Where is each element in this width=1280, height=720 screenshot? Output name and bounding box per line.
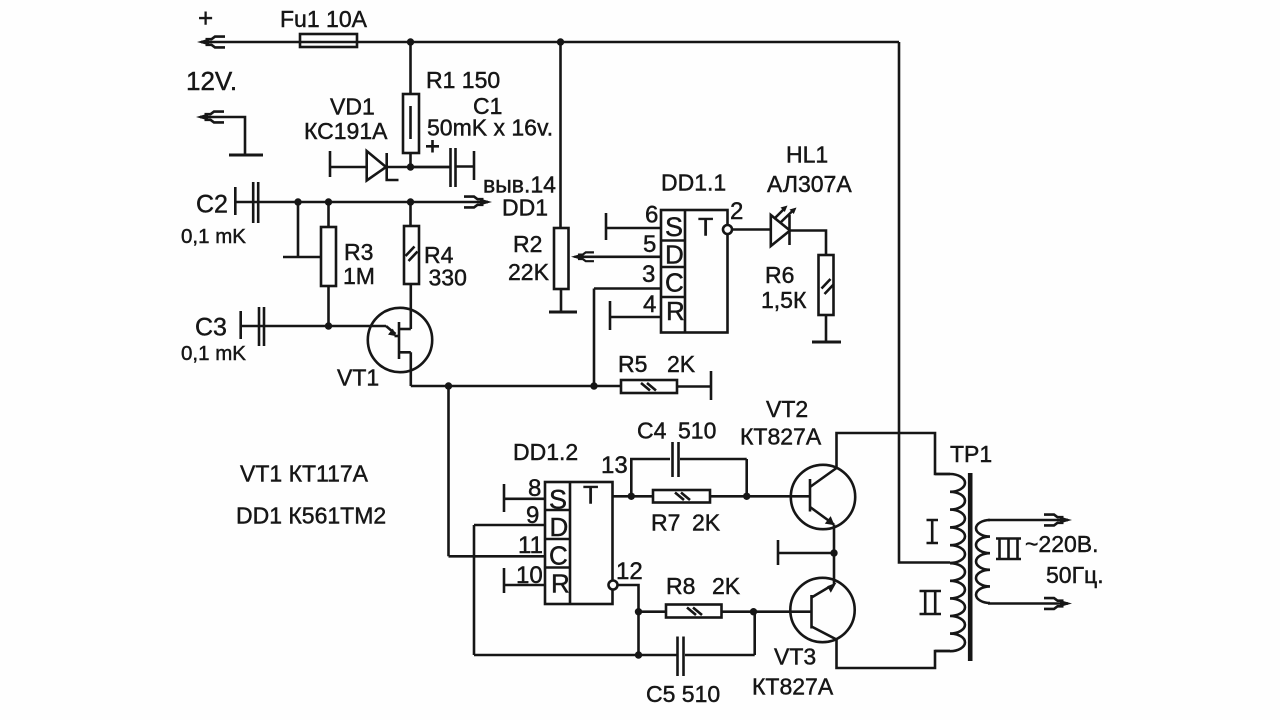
- svg-text:R: R: [666, 296, 685, 326]
- pin 3 C input wire: [594, 287, 661, 290]
- svg-text:R3: R3: [344, 239, 373, 265]
- pin 9 D input wire: [474, 524, 545, 527]
- pin 4 R input wire: [610, 316, 661, 319]
- node R7/C4 junction: [743, 493, 750, 500]
- VT3 collector lead: [812, 627, 951, 669]
- node pin12 / C5 rail: [635, 651, 642, 658]
- wire R4 top lead: [409, 202, 412, 226]
- capacitor C3 plates: [258, 307, 261, 346]
- svg-text:S: S: [549, 485, 567, 515]
- TP1 winding III secondary: [976, 520, 990, 603]
- svg-text:T: T: [583, 482, 598, 510]
- svg-text:6: 6: [645, 202, 658, 229]
- wire y202 bus: [235, 201, 480, 204]
- wire VD1 anode: [330, 166, 366, 169]
- terminal tick C3 left: [239, 311, 242, 339]
- wire secondary bottom lead: [988, 602, 1062, 605]
- svg-text:2K: 2K: [667, 351, 696, 377]
- node R3 top: [325, 198, 332, 205]
- svg-text:12: 12: [616, 558, 643, 585]
- svg-text:R8: R8: [666, 573, 695, 599]
- svg-text:0,1 mK: 0,1 mK: [181, 225, 246, 248]
- svg-text:12V.: 12V.: [186, 66, 237, 96]
- VT1 emitter with arrow: [386, 326, 396, 334]
- svg-text:50mK x 16v.: 50mK x 16v.: [427, 115, 553, 141]
- LED cathode bar: [788, 215, 791, 245]
- node C2 bus / R3 jog: [294, 198, 301, 205]
- resistor R3: [321, 227, 336, 286]
- svg-text:VT1: VT1: [337, 365, 379, 391]
- VT3 base bar: [810, 595, 813, 629]
- wire wiper to DD1.1 D pin: [578, 255, 661, 258]
- pin 11 C input wire: [449, 555, 546, 558]
- node VT2/VT3 emitters: [830, 549, 837, 556]
- svg-text:R2: R2: [513, 231, 542, 257]
- ground bar minus terminal: [229, 154, 263, 157]
- TP1 core bar: [968, 473, 973, 661]
- svg-text:4: 4: [643, 291, 656, 318]
- wire secondary top lead: [988, 519, 1062, 522]
- svg-text:C2: C2: [196, 191, 228, 219]
- diode VD1 triangle: [367, 151, 386, 181]
- wire R4 bottom lead into VT1: [409, 284, 412, 329]
- pin 8 S input wire: [504, 497, 545, 500]
- VT2 emitter with arrow: [810, 507, 834, 525]
- svg-text:D: D: [550, 512, 569, 542]
- wire R8 to VT3 base: [722, 610, 812, 613]
- node pin13 / C4: [628, 493, 635, 500]
- svg-text:АЛ307А: АЛ307А: [767, 171, 852, 197]
- VT2 circle: [791, 465, 855, 529]
- svg-text:22K: 22K: [508, 259, 550, 285]
- DD1.1 cell lines: [661, 241, 685, 298]
- resistor R2: [554, 228, 569, 289]
- svg-text:3: 3: [642, 261, 655, 288]
- wire R2 bottom lead: [560, 289, 563, 312]
- svg-text:R7: R7: [651, 510, 680, 536]
- wire R7 to VT2 base: [710, 495, 810, 498]
- svg-text:50Гц.: 50Гц.: [1046, 562, 1104, 588]
- svg-text:DD1.1: DD1.1: [661, 170, 726, 196]
- svg-text:+: +: [198, 3, 213, 33]
- pin 6 S input wire: [606, 227, 661, 230]
- resistor R7: [653, 490, 710, 503]
- connector arrow - input: [196, 112, 224, 123]
- terminal tick C2 left: [234, 187, 237, 215]
- DD1.2 cell lines: [545, 510, 570, 568]
- ground bar R6: [812, 341, 841, 344]
- VT2 base bar: [809, 479, 812, 512]
- svg-text:1,5К: 1,5К: [761, 287, 807, 313]
- TP1 winding II: [950, 563, 965, 651]
- svg-text:S: S: [665, 212, 683, 242]
- svg-text:Fu1 10A: Fu1 10A: [280, 6, 368, 32]
- LED emission arrows: [774, 208, 785, 219]
- svg-text:510: 510: [678, 418, 716, 444]
- wire minus lead: [204, 117, 245, 155]
- svg-text:2K: 2K: [692, 510, 721, 536]
- svg-text:10: 10: [516, 562, 543, 589]
- LED triangle: [771, 215, 790, 246]
- svg-text:DD1 К561ТМ2: DD1 К561ТМ2: [236, 503, 386, 529]
- svg-text:R5: R5: [618, 351, 647, 377]
- cathode bar VD1 with zener hook: [387, 153, 399, 180]
- wire winding I top lead: [935, 473, 950, 476]
- resistor R6: [819, 255, 834, 315]
- emitter stub wire: [778, 552, 834, 555]
- terminal tick emitter stub: [777, 540, 780, 565]
- VT2 emitter lead down: [833, 525, 836, 554]
- svg-text:8: 8: [528, 475, 541, 502]
- node VT3 base / C5: [750, 608, 757, 615]
- svg-text:R: R: [551, 569, 570, 599]
- svg-text:DD1.2: DD1.2: [513, 439, 578, 465]
- pin 2 output inverter circle: [723, 225, 732, 234]
- TP1 winding I: [950, 474, 965, 563]
- wire B1 bus: [411, 385, 621, 388]
- pin 10 R input wire: [504, 584, 545, 587]
- VT2 collector lead: [810, 433, 950, 487]
- svg-text:HL1: HL1: [786, 142, 828, 168]
- node B top rail / R2 drop: [557, 38, 564, 45]
- fuse Fu1: [300, 34, 357, 47]
- VT3 emitter lead joins VT2: [833, 553, 836, 584]
- svg-text:5: 5: [643, 231, 656, 258]
- wire C3 to VT1 emitter: [241, 325, 386, 328]
- terminal tick pin 8: [503, 484, 506, 512]
- wire VD1 cathode to node: [387, 166, 450, 169]
- terminal tick pin 10: [503, 568, 506, 593]
- svg-text:C3: C3: [195, 314, 227, 342]
- terminal tick pin 6: [605, 213, 608, 240]
- wire R1 top lead: [409, 42, 412, 94]
- ground bar R2: [549, 311, 577, 314]
- wire R3 jog: [283, 202, 321, 257]
- capacitor C5: [678, 637, 684, 677]
- VT1 B2 lead: [399, 328, 411, 331]
- VT1 base bar: [398, 322, 401, 359]
- wire R5 right lead: [677, 385, 711, 388]
- DD1.2 body: [545, 482, 613, 604]
- wire pin 2 to LED: [732, 228, 770, 231]
- svg-text:11: 11: [518, 532, 543, 559]
- connector arrow to DD1 pin 14: [464, 197, 492, 208]
- svg-text:D: D: [665, 240, 684, 270]
- winding label II: [920, 591, 942, 614]
- wire pin 12 down: [618, 585, 639, 655]
- connector arrow output top: [1044, 515, 1072, 526]
- node VD1/C1/R1: [407, 163, 414, 170]
- VT3 emitter with arrow (up): [812, 587, 831, 598]
- wire C5 right lead: [685, 612, 755, 655]
- svg-text:C: C: [665, 268, 684, 298]
- wire top rail +12V: [205, 41, 899, 44]
- connector arrow + input: [197, 37, 225, 48]
- svg-text:VT1 КТ117А: VT1 КТ117А: [240, 461, 369, 487]
- capacitor C1 plates: [449, 148, 452, 187]
- node A top rail / R1: [407, 38, 414, 45]
- svg-text:R6: R6: [765, 262, 794, 288]
- wire rise to DD1.1 C input: [593, 289, 596, 387]
- node to DD1.2 pin11: [445, 382, 452, 389]
- resistor R1: [403, 94, 419, 153]
- node pin12 / R8: [635, 608, 642, 615]
- pin 12 output inverter circle: [609, 581, 618, 590]
- resistor R4: [404, 226, 419, 284]
- svg-text:DD1: DD1: [502, 195, 548, 221]
- svg-text:0,1 mK: 0,1 mK: [181, 342, 246, 365]
- wire winding II bottom lead: [935, 650, 950, 653]
- terminal tick VD1 left: [329, 151, 332, 177]
- wire R2 top lead from rail: [559, 42, 562, 228]
- wire R6 bottom lead: [825, 315, 828, 342]
- svg-text:КТ827А: КТ827А: [740, 424, 822, 450]
- wiper arrow into R2: [571, 252, 594, 261]
- capacitor C4: [673, 442, 679, 477]
- svg-text:2K: 2K: [712, 573, 741, 599]
- svg-text:13: 13: [601, 452, 628, 479]
- wire C1 right lead: [456, 165, 474, 168]
- DD1.1 body: [661, 210, 728, 333]
- svg-text:330: 330: [429, 265, 467, 291]
- wire R3 bottom lead: [327, 286, 330, 326]
- node R3/C3: [325, 322, 332, 329]
- terminal tick pin 4: [609, 301, 612, 330]
- connector arrow output bottom: [1044, 598, 1072, 609]
- svg-text:VD1: VD1: [330, 94, 375, 120]
- terminal tick R5 right: [710, 371, 713, 400]
- svg-text:C: C: [549, 541, 568, 571]
- wire drop to DD1.2 C input: [447, 386, 450, 556]
- capacitor C2 plates: [252, 182, 255, 223]
- svg-text:1M: 1M: [343, 263, 375, 289]
- wire R3 top lead: [327, 202, 330, 227]
- wire up to C4: [631, 459, 670, 496]
- wire LED to R6: [790, 231, 826, 256]
- svg-text:T: T: [698, 214, 713, 242]
- pin 13 output wire: [613, 495, 654, 498]
- wire R1 bottom lead: [409, 153, 412, 167]
- svg-text:КТ827А: КТ827А: [752, 674, 834, 700]
- winding label III: [996, 539, 1021, 560]
- resistor R5: [621, 380, 677, 393]
- wire C1 left lead: [411, 166, 451, 169]
- terminal tick C1 right: [473, 151, 476, 180]
- VT3 circle: [790, 578, 854, 642]
- DD1.1 inner divider: [684, 210, 687, 333]
- plus sign C1 polarity: [426, 140, 439, 153]
- svg-text:~220В.: ~220В.: [1025, 531, 1099, 557]
- svg-text:9: 9: [526, 502, 539, 529]
- VT1 B1 lead: [399, 352, 411, 386]
- svg-text:C4: C4: [637, 418, 667, 444]
- svg-text:R1 150: R1 150: [426, 67, 500, 93]
- wire pin 9 drop to common rail: [473, 525, 476, 655]
- wire C4 right lead: [680, 459, 747, 496]
- wire right-side drop to TP1 center tap: [899, 42, 950, 563]
- svg-text:VT3: VT3: [774, 644, 816, 670]
- winding label I: [927, 520, 939, 543]
- wire R8 left lead: [639, 610, 667, 613]
- svg-text:КС191А: КС191А: [304, 118, 388, 144]
- svg-text:C5 510: C5 510: [646, 681, 720, 707]
- VT1 circle: [368, 308, 432, 372]
- wire common rail: [474, 654, 677, 657]
- node R4 top / arrow: [407, 198, 414, 205]
- DD1.2 inner divider: [569, 482, 572, 604]
- resistor R8: [666, 605, 722, 618]
- svg-text:ТР1: ТР1: [950, 441, 992, 467]
- svg-text:2: 2: [730, 198, 743, 225]
- node to DD1.1 pin3: [590, 382, 597, 389]
- svg-text:VT2: VT2: [766, 396, 808, 422]
